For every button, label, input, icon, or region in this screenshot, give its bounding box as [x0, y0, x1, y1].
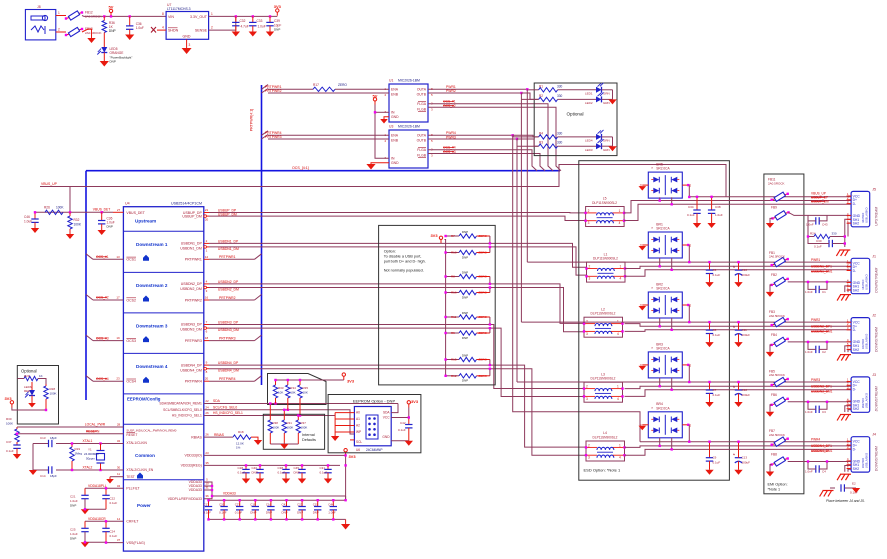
svg-text:SH2: SH2 [853, 407, 860, 411]
wire FB4 to ground [770, 345, 772, 352]
svg-text:XTAL1/CLKIN: XTAL1/CLKIN [126, 441, 147, 445]
junction BR3 pwr [688, 381, 690, 383]
svg-text:SH2: SH2 [853, 222, 860, 226]
net label USBDN4_DP1 [811, 444, 832, 448]
capacitor C15 [314, 500, 321, 519]
net label OCS_#4 [443, 146, 456, 150]
svg-text:VDD33(REG): VDD33(REG) [181, 464, 202, 468]
resistor R19 [70, 444, 74, 471]
U7 GND pin stem [187, 39, 191, 48]
svg-text:+: + [733, 385, 735, 389]
svg-text:ENB: ENB [391, 93, 399, 97]
wire USBDN4_DM to choke [209, 369, 586, 456]
ground below R32 [66, 234, 74, 239]
pin 11 [117, 472, 120, 476]
bus entry OCS4 [86, 376, 93, 382]
svg-text:RED: RED [24, 389, 31, 393]
wire PRTPWR1 to R17 [268, 88, 313, 90]
svg-text:26: 26 [205, 433, 209, 437]
wire BR2 to D- [671, 318, 673, 330]
svg-text:DNP: DNP [462, 336, 468, 340]
svg-text:GRN: GRN [603, 101, 610, 105]
svg-text:2A0.5ROCK: 2A0.5ROCK [769, 433, 785, 437]
svg-text:DNP: DNP [313, 510, 319, 514]
svg-text:+: + [733, 453, 735, 457]
wire BR1 pin1 to PWR [688, 245, 690, 262]
pin 2 USBDN1_DP [204, 239, 209, 244]
capacitor C42 [405, 418, 412, 441]
svg-text:R7: R7 [451, 234, 455, 238]
net label VDDA18CR [88, 517, 106, 521]
pin 28 [117, 423, 121, 427]
resistor R36 [102, 16, 106, 32]
svg-text:0.1uF: 0.1uF [850, 491, 858, 495]
svg-text:SCL: SCL [356, 440, 362, 444]
power switch U1 MIC2026-1BM [384, 79, 433, 123]
wire FB13 to ground [82, 29, 92, 38]
svg-text:SR2.0CA: SR2.0CA [656, 347, 670, 351]
svg-text:HS_IND/CFG_SEL1: HS_IND/CFG_SEL1 [172, 414, 202, 418]
svg-text:VSS(FLAG): VSS(FLAG) [126, 541, 144, 545]
svg-text:U6: U6 [356, 448, 360, 452]
wire BR5 to D- [671, 197, 673, 204]
junction [274, 379, 276, 381]
junction [245, 464, 247, 466]
svg-text:VDDA33: VDDA33 [189, 488, 202, 492]
svg-text:USBDN2_DM: USBDN2_DM [218, 288, 239, 292]
svg-text:1637RO: 1637RO [861, 339, 865, 349]
svg-text:C15: C15 [313, 502, 319, 506]
wire C33 to ground [252, 26, 254, 32]
capacitor C22 [102, 488, 109, 509]
capacitor E2 bypass [830, 484, 856, 491]
capacitor C13 [733, 452, 742, 463]
wire R12 right to net [477, 369, 490, 376]
wire LED3 to ground [602, 145, 613, 147]
capacitor C43 [816, 217, 819, 224]
junction [259, 464, 261, 466]
net label OCS_#2 [443, 104, 456, 108]
svg-text:PRTPWR3: PRTPWR3 [265, 135, 282, 139]
svg-text:C38: C38 [715, 205, 721, 209]
wire BR4 to D+ [659, 438, 661, 446]
junctions BR5 [659, 196, 691, 206]
svg-text:1: 1 [619, 209, 621, 213]
net label USBUP_DP [218, 208, 237, 212]
svg-text:4.7uF: 4.7uF [241, 25, 249, 29]
svg-text:GND: GND [382, 435, 390, 439]
svg-text:DNP: DNP [462, 379, 468, 383]
svg-text:USBDN4_DM: USBDN4_DM [180, 368, 202, 372]
wire cap rail to ground [345, 519, 347, 524]
svg-text:PWR4: PWR4 [446, 131, 456, 135]
wire VDDA18CR [85, 520, 123, 522]
svg-text:PRTPWR2: PRTPWR2 [219, 296, 236, 300]
svg-text:R16: R16 [451, 291, 457, 295]
ferrite bead FB9 [771, 211, 789, 220]
svg-text:1.0uF: 1.0uF [70, 499, 78, 503]
net label USBDN3_DM [218, 328, 239, 332]
svg-text:OCS_[4:1]: OCS_[4:1] [292, 166, 309, 170]
ground below LED6 [28, 403, 36, 408]
svg-text:USBDN4_DP: USBDN4_DP [181, 363, 203, 367]
net label PRTPWR4 [219, 377, 236, 381]
wire PRTPWR3 to bus [209, 340, 255, 342]
ground below C28 [242, 479, 250, 484]
svg-text:C1: C1 [822, 290, 826, 294]
wire USBDN1_DM to J1 [625, 270, 852, 277]
net label USBUP_DM [218, 212, 237, 216]
wire PRTPWR1 to bus [209, 258, 255, 260]
svg-text:GRN: GRN [603, 91, 610, 95]
wire BR1 to D+ [659, 258, 661, 266]
wires C11 [738, 322, 740, 342]
pin 3 USBDN2_DM [204, 286, 209, 293]
svg-text:PWR2: PWR2 [811, 318, 820, 322]
wire TEST [110, 476, 123, 478]
junction [223, 499, 225, 501]
wire LED6 to ground [31, 396, 33, 404]
resistor R37 [296, 416, 300, 445]
svg-text:R28: R28 [50, 387, 56, 391]
svg-text:4: 4 [620, 277, 622, 281]
svg-text:U3: U3 [389, 125, 393, 129]
junction [317, 518, 319, 520]
svg-text:GND: GND [391, 161, 399, 165]
net label USBDN2_DP1 [811, 325, 832, 329]
wire VDDA33 a [204, 482, 346, 496]
wire J5 SH1 [845, 219, 851, 236]
svg-text:FB4: FB4 [771, 333, 777, 337]
bus entry PRTPWR2 [262, 89, 269, 94]
svg-text:SUSP_IND/LOCAL_PWR/NON_REM0: SUSP_IND/LOCAL_PWR/NON_REM0 [126, 428, 176, 432]
svg-text:10K: 10K [303, 391, 308, 395]
ground below C32 [232, 32, 240, 37]
wire J2 SH2 [848, 350, 851, 352]
net label PRTPWR4 [265, 131, 282, 135]
svg-text:J8: J8 [37, 5, 41, 9]
svg-text:+: + [733, 265, 735, 269]
capacitor C46 [31, 212, 38, 222]
svg-text:100uF: 100uF [742, 461, 751, 465]
connector J1 downstream [847, 254, 879, 293]
svg-text:1%: 1% [236, 446, 241, 450]
LED LED4 [596, 130, 604, 140]
wires C1 [808, 282, 827, 290]
wire J4 GND [788, 461, 851, 463]
capacitor C14 [49, 466, 52, 473]
bus label OCS_[4:1] [292, 166, 309, 170]
wire PWR2 jog to R2 [521, 93, 538, 99]
svg-text:D-: D- [853, 269, 857, 273]
ground at U1 [380, 119, 388, 124]
svg-text:0.1uF: 0.1uF [320, 470, 328, 474]
svg-text:Defaults: Defaults [302, 438, 316, 442]
svg-text:C20: C20 [219, 502, 225, 506]
svg-text:C46: C46 [24, 215, 30, 219]
junction [332, 499, 334, 501]
svg-text:RBIAS: RBIAS [214, 433, 225, 437]
pin stub A0 [335, 412, 354, 414]
junctions shield RC [807, 235, 846, 244]
svg-text:20: 20 [205, 377, 209, 381]
svg-text:2A0.5ROCK: 2A0.5ROCK [769, 373, 785, 377]
wire BR5 pin1 to VBUS [688, 185, 690, 197]
resistor R12 [459, 374, 477, 378]
svg-text:DOWNSTREAM: DOWNSTREAM [875, 327, 879, 352]
ground at J8 return [87, 38, 95, 43]
wire J5 GND [808, 214, 851, 216]
svg-text:31: 31 [205, 486, 209, 490]
svg-text:R10: R10 [451, 251, 457, 255]
svg-text:PWR3: PWR3 [811, 378, 820, 382]
svg-text:C9: C9 [713, 456, 717, 460]
capacitor C11 [733, 325, 742, 336]
svg-text:C23: C23 [297, 502, 303, 506]
junction [254, 499, 256, 501]
svg-text:ORANGE: ORANGE [110, 51, 124, 55]
wire BR1 to D- [671, 258, 673, 270]
net label VDDA18PLL [88, 484, 107, 488]
wire PWR4 from U3 OUTA [428, 134, 513, 136]
junctions BR3 [659, 385, 673, 391]
svg-text:C19: C19 [250, 502, 256, 506]
wire C39 to ground [269, 26, 271, 32]
ground below C45 [298, 479, 306, 484]
wire OCS_#1 from U1 FLGA to bus [428, 104, 553, 171]
svg-text:11: 11 [117, 472, 120, 476]
pin 2 of J8 [56, 28, 66, 33]
svg-text:1.0nF: 1.0nF [805, 470, 813, 474]
junction option tap [489, 368, 491, 370]
wire U1 GND [384, 117, 389, 119]
pin 20 USBUP_DM [204, 215, 209, 222]
wire PWR3 from U3 OUTB [428, 138, 517, 140]
svg-text:A2: A2 [356, 424, 360, 428]
junctions upstream caps [696, 196, 713, 198]
svg-text:0.1uF: 0.1uF [110, 501, 118, 505]
net label OCS_#3 [443, 150, 456, 154]
power 3V3 LED6 [4, 396, 13, 408]
svg-text:SR2.0CA: SR2.0CA [656, 167, 670, 171]
svg-text:J3: J3 [872, 373, 876, 377]
wire OCS_#4 from U3 FLGA to bus [428, 150, 537, 171]
svg-text:EEPROM/Config: EEPROM/Config [127, 396, 161, 401]
capacitor C24 [102, 521, 109, 542]
pin 27 VBUS_DET [113, 208, 123, 213]
svg-text:3: 3 [588, 456, 590, 460]
svg-text:J5: J5 [872, 187, 876, 191]
svg-text:2A0.5ROCK: 2A0.5ROCK [769, 314, 785, 318]
wire PWR2 horizontal [521, 321, 689, 323]
capacitor C2 [816, 346, 819, 353]
svg-text:1.0uF: 1.0uF [70, 532, 78, 536]
chassis ground J2 shield [837, 355, 851, 361]
svg-text:0.1uF: 0.1uF [238, 470, 246, 474]
pin 37 [117, 538, 121, 542]
wires C30 [808, 237, 845, 244]
wire pullup rail [276, 379, 344, 381]
junction option tap [489, 323, 491, 325]
capacitor C7 [706, 382, 713, 402]
net label USBDN4_DM1 [811, 449, 833, 453]
wire A pins bundle [334, 413, 336, 436]
svg-text:GRN: GRN [603, 139, 610, 143]
svg-text:VBUS_DET: VBUS_DET [93, 208, 110, 212]
wire BR2 pin1 to PWR [688, 305, 690, 322]
svg-text:C10: C10 [742, 268, 748, 272]
capacitor C9 [706, 442, 713, 470]
wire PRTPWR4 to bus [209, 380, 255, 382]
net label PWR2 [811, 318, 820, 322]
wire XTAL2 [56, 469, 123, 471]
bus entry PRTPWR3 [262, 131, 269, 136]
svg-text:SENSE: SENSE [195, 29, 208, 33]
svg-text:SCL/SMBCLK/CFG_SEL0: SCL/SMBCLK/CFG_SEL0 [163, 408, 202, 412]
wire PWR3 horizontal [517, 381, 689, 383]
svg-text:R30: R30 [6, 417, 12, 421]
wire upstream D+ to J5 [624, 201, 851, 213]
svg-text:ESD Option: *Note 1: ESD Option: *Note 1 [584, 468, 621, 473]
pin 1 USBDN1_DM [204, 246, 209, 253]
net label VBUS_DET [93, 208, 110, 212]
power 5V input [109, 4, 114, 16]
svg-text:Downstream 4: Downstream 4 [136, 364, 168, 369]
choke L3 [583, 372, 624, 402]
capacitor C44 [330, 500, 337, 519]
LED LED2 [596, 92, 604, 102]
ground below U7 [182, 48, 192, 54]
power 3V3 output [274, 4, 282, 16]
svg-text:ENA: ENA [391, 134, 399, 138]
junction [297, 414, 299, 416]
wire PRTPWR2 to U1 ENB [268, 92, 389, 94]
wire BR3 pin1 to PWR [688, 365, 690, 382]
svg-text:C32: C32 [240, 19, 246, 23]
resistor R28 [44, 384, 48, 399]
junction BR1 pwr [688, 261, 690, 263]
svg-text:0.1uF: 0.1uF [235, 510, 243, 514]
svg-text:100K: 100K [50, 392, 57, 396]
svg-text:1637RO: 1637RO [861, 458, 865, 468]
resistor R33 [273, 380, 277, 398]
crystal Y1 [97, 444, 105, 471]
svg-text:0.1uF: 0.1uF [219, 510, 227, 514]
svg-text:DLP11SN900SL2: DLP11SN900SL2 [592, 201, 617, 205]
net label USBDN1_DM1 [811, 270, 833, 274]
esd array BR4 [640, 402, 692, 438]
ground below C7 [705, 402, 713, 407]
wire USBDN3_DP to J3 [625, 386, 852, 388]
svg-text:USBDN1_DP: USBDN1_DP [181, 242, 203, 246]
wire R4 feed [513, 136, 539, 138]
wires C12 [738, 382, 740, 402]
ground below R18 [254, 440, 262, 445]
svg-text:FLGB: FLGB [417, 107, 427, 111]
svg-text:PRTPWR2: PRTPWR2 [185, 298, 202, 302]
net label OCS_#1 [96, 255, 109, 259]
svg-text:3V3: 3V3 [411, 399, 419, 404]
pin 10 [205, 482, 209, 486]
resistor R24 [814, 234, 830, 238]
svg-text:PLLFILT: PLLFILT [126, 487, 140, 491]
svg-text:35: 35 [205, 461, 209, 465]
net label VDDA33 [223, 492, 236, 496]
junctions BR4 [659, 445, 673, 451]
wire R1 to LED1 [558, 89, 596, 91]
pin 31 [205, 486, 209, 490]
net label PWR3 [446, 135, 456, 139]
net label USBDN1_DM [218, 247, 239, 251]
svg-text:DLP11SN900SL2: DLP11SN900SL2 [593, 435, 618, 439]
svg-text:C25: C25 [70, 527, 76, 531]
LED LED1 [596, 83, 604, 93]
bus entry OCS1 [86, 254, 93, 259]
ground below crystal rail [29, 470, 37, 475]
capacitor C17 [205, 500, 212, 519]
wire R8 left [446, 276, 459, 278]
svg-text:Internal: Internal [302, 433, 315, 437]
svg-text:XTAL2: XTAL2 [83, 466, 93, 470]
capacitor C1 [816, 286, 819, 293]
junction option tap [489, 283, 491, 285]
svg-text:10K: 10K [278, 391, 283, 395]
ground below C9 [705, 470, 713, 475]
svg-text:3V3: 3V3 [348, 454, 356, 459]
ground below C40 [256, 479, 264, 484]
svg-text:18pF: 18pF [50, 436, 57, 440]
ferrite bead FB6 [771, 397, 789, 406]
svg-text:1: 1 [619, 443, 621, 447]
junction [301, 499, 303, 501]
svg-text:2: 2 [211, 26, 213, 30]
svg-text:U4: U4 [125, 202, 130, 206]
resistor R26 [45, 210, 63, 214]
connector J3 downstream [847, 373, 879, 412]
ground below C36 DNP [98, 230, 106, 235]
pin 14 [117, 517, 121, 521]
wire U6 GND [391, 440, 409, 442]
net label XTAL2 [83, 466, 93, 470]
svg-text:1.0uF: 1.0uF [328, 510, 336, 514]
choke L1 [585, 252, 626, 282]
junction option rail [444, 251, 446, 253]
svg-text:PRTPWR4: PRTPWR4 [185, 380, 202, 384]
wire SCL [204, 410, 355, 434]
wire R17 to U1 ENA [335, 88, 389, 90]
wire VDDA33 b [204, 485, 212, 487]
svg-text:WP: WP [356, 430, 361, 434]
svg-text:HS_IND/CFG_SEL1: HS_IND/CFG_SEL1 [213, 411, 243, 415]
bus PRTPWR[4:1]/OCS_[4:1] vertical [261, 85, 263, 385]
wire 5V rail J8 to U7 VIN [82, 15, 166, 18]
svg-text:R35: R35 [303, 386, 309, 390]
bus OCS_[4:1] horizontal [86, 171, 560, 400]
svg-text:DNP: DNP [274, 28, 280, 32]
wire XTAL1 [56, 443, 123, 445]
wire PWR3 vertical drop [516, 139, 518, 382]
svg-text:3: 3 [589, 277, 591, 281]
svg-text:USB2514/4CP1CM: USB2514/4CP1CM [171, 202, 202, 206]
ground for LED pair [608, 146, 616, 151]
pin 22 [205, 399, 209, 403]
junction option tap [489, 242, 491, 244]
pin stub A1 [335, 418, 354, 420]
wire J1 SH2 [848, 290, 851, 292]
svg-text:USBDN3_DP: USBDN3_DP [218, 320, 239, 324]
wire R10 right to net [477, 247, 490, 253]
svg-text:Optional: Optional [21, 369, 37, 374]
